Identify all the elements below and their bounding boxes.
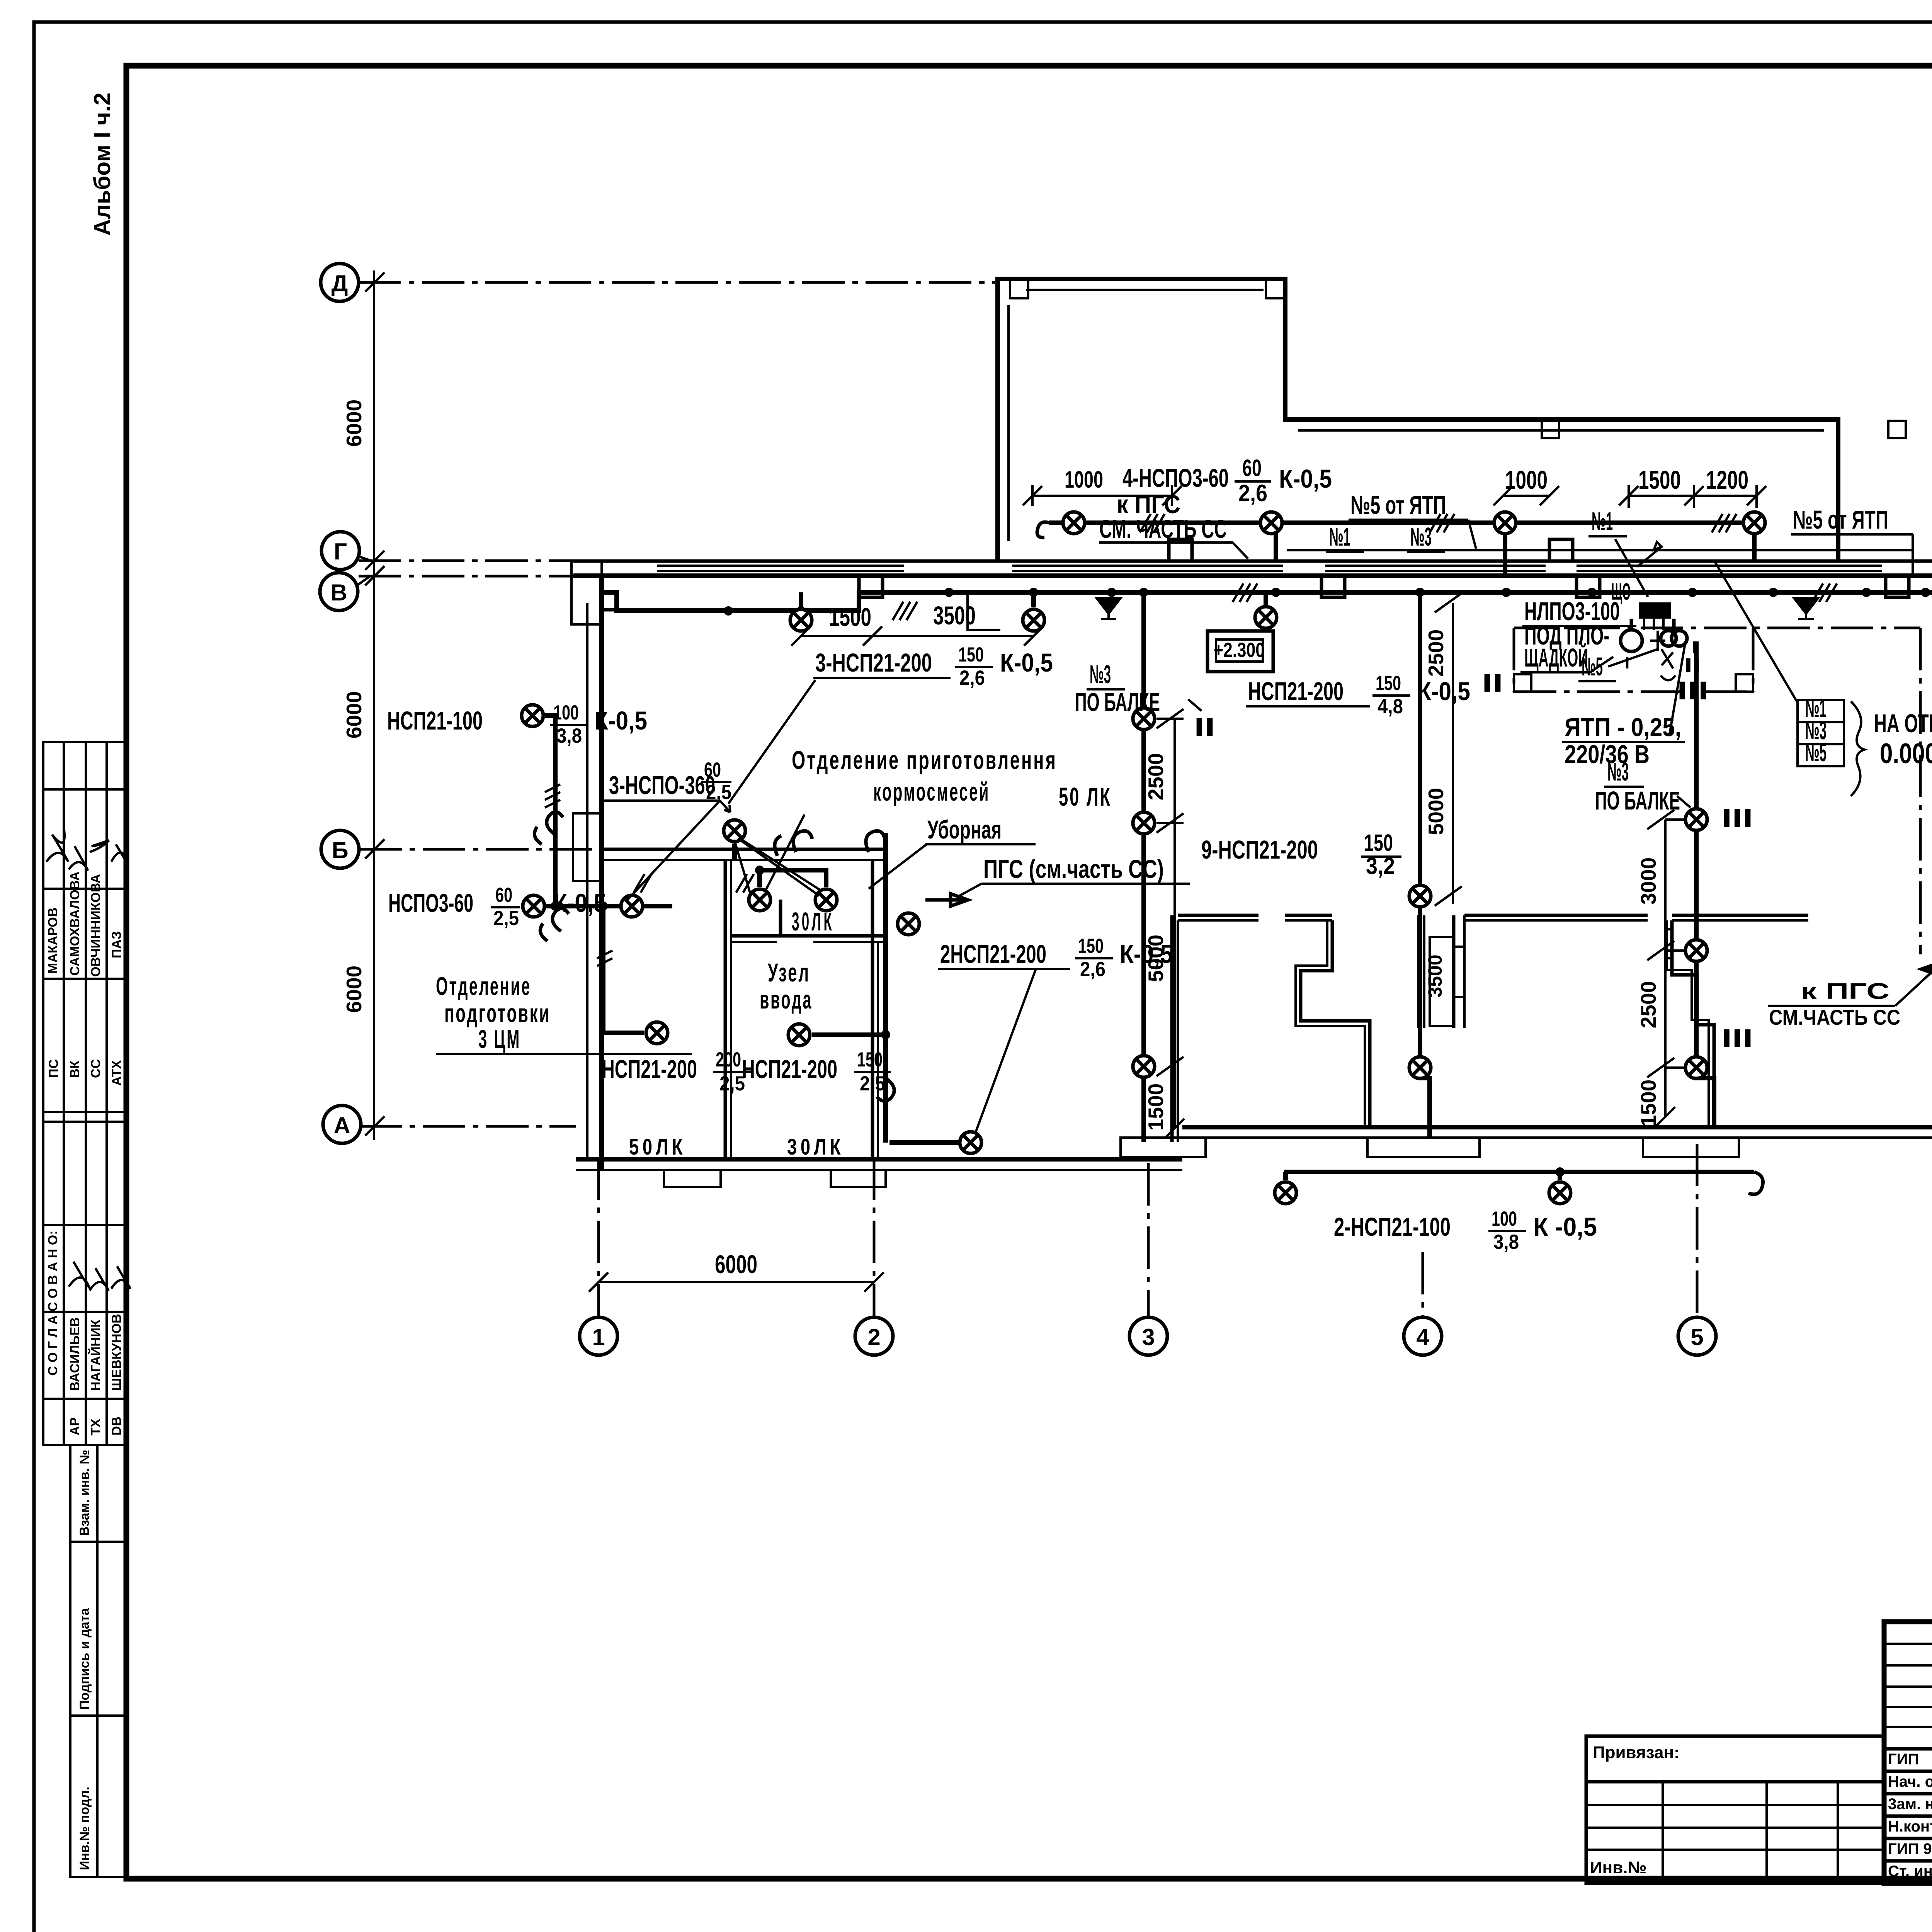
svg-text:1500: 1500 (829, 603, 871, 632)
svg-text:3500: 3500 (933, 601, 976, 630)
svg-text:6000: 6000 (715, 1250, 757, 1279)
+2.300 platform box (1207, 631, 1273, 672)
svg-text:II: II (1194, 713, 1215, 742)
svg-text:К-0,5: К-0,5 (1417, 677, 1470, 706)
svg-text:II: II (1684, 654, 1701, 677)
column square mid-top wall 2 (1888, 421, 1906, 438)
long leader to otm block (1637, 542, 1797, 701)
svg-text:ГИП: ГИП (1888, 1751, 1919, 1768)
label 4-НСПОЗ-60 (1122, 455, 1332, 506)
wall band along axis В (inner line) (573, 573, 1932, 578)
label ПГС (см. часть СС) (958, 855, 1190, 896)
pier box top wire 2 (1549, 539, 1573, 561)
lamp L1 (790, 609, 812, 631)
label №1 (top) (1326, 522, 1364, 552)
lamp L7 (1255, 607, 1277, 628)
wall: upper protrusion block (998, 279, 1838, 561)
lamp L26 (898, 913, 919, 935)
label №5 от ЯТП (right) (1791, 505, 1913, 561)
left sidebar table 1 (signatures МАКАРОВ..ПАЗ) (43, 742, 126, 1122)
bottom wall right block (1182, 1127, 1932, 1138)
partition 50ЛК / Узел ввода (725, 860, 731, 1159)
hash marks left wires (545, 784, 651, 966)
svg-text:+2.300: +2.300 (1214, 639, 1265, 662)
svg-text:СС: СС (88, 1059, 103, 1078)
svg-text:ЩАДКОЙ: ЩАДКОЙ (1524, 643, 1588, 672)
column axis stubs 1-7 (599, 1144, 1932, 1316)
label №3 по балке (col5) (1595, 757, 1690, 815)
lamp L10 (1133, 1056, 1155, 1077)
top outside group wire к ПГС (1037, 518, 1760, 576)
bottom dimension 6000 between col 1-2 (589, 1250, 884, 1292)
svg-text:60: 60 (704, 759, 721, 781)
partition along axis Б (602, 849, 886, 860)
label ЯТП-0,25 220/36 В (1562, 641, 1685, 769)
label НСП21-200 200/2,5 (602, 1048, 752, 1095)
svg-text:3: 3 (1142, 1324, 1155, 1350)
svg-text:0.000: 0.000 (1880, 738, 1932, 769)
switch hook A (534, 812, 563, 844)
svg-text:3-НСПО-360: 3-НСПО-360 (609, 771, 715, 800)
window on col5 partition (1667, 929, 1672, 958)
axis Г dash-dot line (359, 560, 576, 562)
label Уборная (869, 815, 1036, 889)
svg-text:Инв.№ подл.: Инв.№ подл. (77, 1787, 92, 1870)
wire hash bottom (736, 874, 754, 893)
lamp L5 (1494, 512, 1516, 534)
axis Б dash-dot line (359, 848, 603, 851)
left room wires (545, 716, 672, 1033)
svg-text:Отделение: Отделение (436, 972, 531, 1001)
label №3 по балке (col3) (1075, 660, 1202, 717)
svg-text:3000: 3000 (1636, 857, 1660, 905)
Узел ввода wires (735, 833, 890, 1143)
svg-text:60: 60 (1242, 455, 1262, 481)
svg-text:НСП21-100: НСП21-100 (387, 706, 483, 735)
svg-text:Нач. отд.: Нач. отд. (1888, 1773, 1932, 1790)
porch at left wall near Б (573, 813, 602, 881)
svg-text:кормосмесей: кормосмесей (873, 777, 990, 806)
svg-text:Б: Б (332, 837, 348, 863)
svg-text:2: 2 (867, 1324, 880, 1350)
axis Д dash-dot line (359, 281, 995, 284)
lamp L21 (646, 1022, 668, 1044)
svg-text:ВК: ВК (68, 1060, 82, 1078)
dim 1500 3500 under band (791, 601, 1043, 646)
svg-text:К-0,5: К-0,5 (1120, 940, 1173, 969)
partition under Уборная (731, 936, 886, 942)
svg-text:№1: №1 (1592, 507, 1613, 536)
svg-text:К-0,5: К-0,5 (1279, 464, 1332, 493)
svg-text:ввода: ввода (760, 985, 813, 1014)
svg-text:К-0,5: К-0,5 (1000, 648, 1053, 677)
svg-text:4,8: 4,8 (1378, 695, 1403, 718)
lamp L2 (1023, 609, 1044, 631)
svg-text:3,8: 3,8 (1493, 1231, 1519, 1253)
svg-text:4-НСПО3-60: 4-НСПО3-60 (1122, 464, 1229, 493)
svg-text:Г: Г (334, 539, 347, 565)
svg-text:№3: №3 (1607, 757, 1629, 786)
svg-text:3-НСП21-200: 3-НСП21-200 (815, 648, 932, 677)
svg-text:3500: 3500 (1424, 954, 1446, 997)
junction dots on band wire (724, 588, 1930, 616)
svg-text:ГИП 9: ГИП 9 (1888, 1840, 1932, 1857)
window lines in band (657, 566, 1882, 571)
hash marks on band wire (893, 583, 1837, 620)
lamp L12 (1409, 1057, 1431, 1078)
svg-text:5000: 5000 (1424, 788, 1448, 835)
lamp L4 (1260, 512, 1282, 534)
svg-text:2НСП21-200: 2НСП21-200 (940, 940, 1046, 969)
svg-text:2,5: 2,5 (493, 907, 519, 930)
lamp stub drop 1 (799, 592, 803, 607)
left exterior wall (587, 576, 602, 1170)
dim chain col5 wire (1647, 810, 1685, 1126)
black junction box triangle 2 (1794, 598, 1818, 619)
shaft band at column 4 (1454, 915, 1464, 1028)
svg-text:ШЕВКУНОВ: ШЕВКУНОВ (109, 1314, 124, 1391)
leader №5 (1608, 649, 1658, 667)
svg-text:Альбом I ч.2: Альбом I ч.2 (89, 92, 115, 236)
label НСПОЗ-60 60/2,5 (388, 884, 606, 930)
Привязан table (1586, 1736, 1884, 1883)
svg-text:50ЛК: 50ЛК (629, 1134, 686, 1160)
axis А dash-dot line (359, 1125, 576, 1128)
entry steps below protrusion (968, 592, 1000, 630)
lamp L6 (1743, 512, 1765, 534)
bottom wall left block (576, 1159, 1182, 1170)
lamp L8 (1133, 708, 1155, 730)
svg-text:СМ. ЧАСТЬ СС: СМ. ЧАСТЬ СС (1099, 515, 1227, 544)
pier box top wire 1 (1169, 539, 1192, 561)
svg-text:НСП21-200: НСП21-200 (1248, 677, 1344, 706)
svg-text:2500: 2500 (1144, 753, 1168, 800)
svg-text:НА ОТМ.: НА ОТМ. (1874, 709, 1932, 738)
label к ПГС см.часть СС (left leader) (1768, 972, 1932, 1029)
svg-text:В: В (330, 580, 347, 605)
room label Отделение приготовления кормосмесей (792, 746, 1112, 811)
svg-text:ПО БАЛКЕ: ПО БАЛКЕ (1075, 688, 1160, 717)
svg-text:2,6: 2,6 (1238, 480, 1267, 506)
otm block №1 №3 №5 (1798, 694, 1932, 796)
svg-text:6000: 6000 (342, 400, 366, 447)
dim chain col3 wire (1156, 709, 1184, 1138)
sill bottom mid 3 (1643, 1138, 1739, 1157)
svg-text:5: 5 (1690, 1324, 1703, 1350)
svg-text:НСП21-200: НСП21-200 (742, 1055, 837, 1084)
svg-text:ПАЗ: ПАЗ (109, 931, 124, 958)
svg-text:№5: №5 (1805, 738, 1827, 767)
mezzanine corner square 2 (1736, 674, 1753, 692)
svg-text:2500: 2500 (1636, 981, 1660, 1028)
svg-text:1000: 1000 (1505, 466, 1548, 495)
arrow к ПГС pointing left (1922, 963, 1932, 975)
switch hook in Узел ввода (877, 1078, 894, 1101)
partition right of Узел ввода (872, 860, 878, 1159)
svg-text:Ст. инж.: Ст. инж. (1888, 1863, 1932, 1880)
svg-text:4: 4 (1416, 1324, 1429, 1350)
pier box on band 4 (1886, 576, 1909, 597)
column square top-right of protrusion (1266, 280, 1284, 298)
svg-text:1500: 1500 (1144, 1083, 1168, 1131)
svg-text:АР: АР (68, 1417, 82, 1435)
dim chain col4 wire (1435, 593, 1462, 906)
svg-text:ПО БАЛКЕ: ПО БАЛКЕ (1595, 786, 1680, 815)
label 2-НСП21-100 bottom (1334, 1207, 1597, 1253)
svg-text:60: 60 (495, 884, 512, 906)
axis circle А (323, 1105, 361, 1143)
lamp L19 (523, 895, 544, 917)
bottom outside group wire (1284, 1167, 1763, 1194)
svg-text:II: II (1482, 668, 1503, 697)
leader №1 to panel (1615, 539, 1648, 597)
svg-text:подготовки: подготовки (444, 999, 551, 1028)
ЯТП transformer symbols (1621, 619, 1701, 680)
svg-text:№3: №3 (1410, 522, 1432, 551)
band end cap top right (1913, 561, 1932, 576)
svg-text:САМОХВАЛОВА: САМОХВАЛОВА (68, 871, 82, 976)
svg-text:Уборная: Уборная (927, 815, 1002, 844)
column circle 5 (1678, 1317, 1716, 1355)
svg-text:220/36 В: 220/36 В (1565, 740, 1650, 769)
svg-text:2,6: 2,6 (959, 667, 985, 689)
svg-text:К-0,5: К-0,5 (553, 889, 606, 918)
mezzanine dash-dot outline (1514, 628, 1920, 954)
svg-text:АТХ: АТХ (109, 1060, 124, 1086)
svg-text:К-0,5: К-0,5 (594, 706, 647, 735)
window sill bottom left 1 (664, 1170, 721, 1187)
lamp L25 (788, 1024, 810, 1046)
middle horizontal partition segment 3 (1464, 915, 1648, 920)
middle horizontal partition segment 4 (1672, 915, 1808, 920)
svg-text:№3: №3 (1090, 660, 1111, 689)
svg-text:№5 от ЯТП: №5 от ЯТП (1793, 505, 1888, 534)
svg-text:2,5: 2,5 (719, 1072, 745, 1095)
middle horizontal partition y2375 segment 1 (1178, 915, 1259, 920)
svg-text:6000: 6000 (342, 966, 366, 1013)
svg-text:150: 150 (958, 643, 984, 666)
group wire column 5 area (1696, 641, 1714, 1127)
sill bottom mid 1 (1121, 1138, 1206, 1157)
lamp stub drop 2 (1031, 592, 1036, 607)
column circle 1 (580, 1317, 617, 1355)
axis circle Д (321, 264, 359, 301)
black junction box triangle 1 (1097, 598, 1121, 619)
svg-text:№1: №1 (1329, 522, 1350, 551)
lamp L13 (1685, 809, 1707, 830)
svg-text:2500: 2500 (1424, 629, 1448, 677)
column square top-left of protrusion (1010, 280, 1028, 298)
entry porch left top (571, 561, 602, 624)
svg-text:ЯТП - 0,25,: ЯТП - 0,25, (1565, 713, 1681, 742)
lamp L20 (621, 895, 643, 917)
svg-text:МАКАРОВ: МАКАРОВ (46, 908, 60, 974)
svg-text:ПС: ПС (46, 1059, 61, 1078)
lamp L16 (1275, 1182, 1296, 1204)
svg-text:Привязан:: Привязан: (1593, 1743, 1680, 1762)
svg-text:№5: №5 (1582, 652, 1603, 681)
wall band along axis Г (outer line) (573, 560, 1932, 563)
svg-text:3ам. нач.: 3ам. нач. (1888, 1796, 1932, 1813)
svg-text:1: 1 (592, 1324, 605, 1350)
svg-text:III: III (1721, 1024, 1753, 1053)
signature scribbles sidebar (46, 827, 130, 1291)
svg-text:100: 100 (1492, 1207, 1517, 1230)
column circle 3 (1129, 1317, 1167, 1355)
svg-text:Н.контр.: Н.контр. (1888, 1818, 1932, 1835)
svg-text:100: 100 (553, 701, 579, 724)
axis circle В (320, 573, 370, 611)
svg-text:ПГС (см.часть СС): ПГС (см.часть СС) (983, 855, 1164, 884)
column circle 4 (1404, 1317, 1442, 1355)
svg-text:№5 от ЯТП: №5 от ЯТП (1350, 491, 1446, 520)
hash marks on top wire (1140, 514, 1736, 532)
window sill bottom left 2 (831, 1170, 886, 1187)
shaft wall at column 4 left (1419, 915, 1424, 1028)
column square mid-top wall (1542, 421, 1559, 438)
svg-text:1500: 1500 (1636, 1080, 1660, 1127)
svg-text:DВ: DВ (109, 1417, 124, 1435)
label к ПГС (top) (1099, 490, 1248, 559)
lamp L24 (815, 889, 837, 911)
axis circle Б (321, 830, 359, 868)
label 2НСП21-200 150/2,6 (938, 935, 1173, 1132)
lamp L15 (1685, 1057, 1707, 1078)
leader diagonals to Уборная lamps (741, 839, 820, 890)
svg-text:200: 200 (716, 1048, 741, 1071)
wall stub in Уборная (779, 900, 782, 936)
stepped partition right (col 5) (1667, 920, 1714, 1127)
mezzanine corner square 1 (1514, 674, 1531, 692)
stepped partition (stair enclosure) (1296, 920, 1370, 1127)
pier box on band 2 (1321, 576, 1345, 597)
svg-text:Д: Д (332, 270, 348, 296)
svg-text:НСПО3-60: НСПО3-60 (388, 889, 473, 918)
dim 1000 top middle (1493, 466, 1559, 505)
label 3-НСПО-360 (604, 680, 819, 902)
svg-text:Взам. инв. №: Взам. инв. № (77, 1450, 92, 1536)
svg-text:2-НСП21-100: 2-НСП21-100 (1334, 1213, 1451, 1242)
svg-text:150: 150 (1364, 830, 1393, 856)
svg-text:1200: 1200 (1706, 466, 1748, 495)
svg-text:А: А (333, 1112, 350, 1138)
lamp L27 (960, 1132, 981, 1153)
group wire column 3 (1141, 592, 1146, 1142)
label 9-НСП21-200 150/3,2 (1201, 830, 1401, 879)
svg-text:2,6: 2,6 (1080, 958, 1105, 981)
parapet line above Г (1287, 549, 1913, 551)
svg-text:III: III (1677, 676, 1709, 705)
svg-text:Подпись и дата: Подпись и дата (77, 1607, 92, 1710)
axis В dash-dot line (359, 575, 595, 578)
lamp L11 (1409, 885, 1431, 907)
svg-text:к ПГС: к ПГС (1801, 979, 1889, 1004)
svg-text:3,8: 3,8 (556, 724, 582, 747)
label 3-НСП21-200 (813, 643, 1053, 689)
svg-text:1500: 1500 (1638, 466, 1681, 495)
lamp L23 (749, 889, 770, 911)
boxed dim 3500 (1424, 937, 1454, 1026)
room label Отделение подготовки ЗЦМ (436, 972, 692, 1054)
svg-text:50 ЛК: 50 ЛК (1059, 782, 1112, 811)
lamp L9 (1133, 812, 1155, 834)
exit arrow right (ПГС) (925, 894, 968, 906)
svg-text:150: 150 (1376, 672, 1401, 695)
svg-text:3 ЦМ: 3 ЦМ (478, 1025, 521, 1054)
window inner lines protrusion (1009, 290, 1932, 587)
main band group wire (602, 592, 1932, 1059)
svg-text:Отделение приготовлення: Отделение приготовлення (792, 746, 1057, 775)
svg-text:150: 150 (857, 1048, 883, 1071)
lamp L22 (724, 820, 745, 842)
lamp L18 (522, 705, 543, 726)
label №3 (top) (1407, 522, 1445, 552)
switch hooks above Уборная (775, 831, 812, 856)
pier box on band 3 (1577, 576, 1600, 597)
lamp L3 (1063, 512, 1085, 534)
svg-text:Инв.№: Инв.№ (1590, 1858, 1647, 1877)
dim 1500 1200 top right (1619, 466, 1766, 508)
label НСП21-200 150/2,5 (742, 1048, 891, 1095)
vertical partition x3040 (1172, 915, 1178, 1142)
svg-text:ОВЧИННИКОВА: ОВЧИННИКОВА (88, 874, 103, 977)
pier box on band 1 (859, 576, 883, 597)
lamp L14 (1685, 940, 1707, 961)
wire to 2НСП21 lamp (889, 1140, 958, 1145)
label НСП21-100 100/3,8 (387, 701, 647, 747)
room label Узел ввода (760, 958, 813, 1014)
ЩО panel black box (1611, 578, 1671, 630)
svg-text:6000: 6000 (342, 691, 366, 738)
svg-text:НАГАЙНИК: НАГАЙНИК (88, 1320, 103, 1391)
lamp L17 (1549, 1182, 1571, 1204)
label НСП21-200 150/4,8 (1246, 672, 1470, 718)
middle horizontal partition segment 2 (1285, 915, 1332, 920)
lamp stub drop +2.300 (1264, 592, 1268, 605)
label НЛПОЗ-100 под площадкой (1520, 597, 1636, 672)
staff roles (1888, 1751, 1932, 1880)
svg-text:НСП21-200: НСП21-200 (602, 1055, 697, 1084)
group wire column 4 area (1420, 592, 1430, 1138)
svg-text:Узел: Узел (768, 958, 810, 987)
svg-text:ТХ: ТХ (88, 1418, 103, 1435)
svg-text:30ЛК: 30ЛК (787, 1134, 844, 1160)
dim 1000 top left (1023, 466, 1182, 506)
left dimension chain line (365, 270, 384, 1140)
svg-text:ВАСИЛЬЕВ: ВАСИЛЬЕВ (68, 1317, 82, 1391)
left sidebar strip 3 (Взам.инв / Подпись / Инв.подл) (70, 1445, 126, 1877)
svg-text:С О Г Л А С О В А Н О:: С О Г Л А С О В А Н О: (46, 1230, 60, 1376)
left sidebar table 2 (СОГЛАСОВАНО) (43, 1122, 126, 1445)
sill bottom mid 2 (1367, 1138, 1480, 1157)
svg-text:III: III (1721, 804, 1753, 833)
svg-text:30ЛК: 30ЛК (792, 907, 834, 936)
svg-text:2,5: 2,5 (860, 1072, 885, 1095)
label №1 (near ЩО) (1588, 507, 1627, 536)
svg-text:К -0,5: К -0,5 (1533, 1213, 1597, 1242)
svg-text:1000: 1000 (1065, 466, 1103, 493)
svg-text:9-НСП21-200: 9-НСП21-200 (1201, 835, 1318, 864)
svg-text:СМ.ЧАСТЬ СС: СМ.ЧАСТЬ СС (1769, 1005, 1900, 1029)
switch hook B (540, 908, 569, 941)
column circle 2 (855, 1317, 893, 1355)
axis circle Г (321, 532, 371, 570)
label №5 от ЯТП (left) (1349, 491, 1476, 549)
label №5 под площадкой (1578, 652, 1616, 681)
svg-text:I: I (1625, 653, 1629, 672)
svg-text:150: 150 (1078, 935, 1104, 957)
